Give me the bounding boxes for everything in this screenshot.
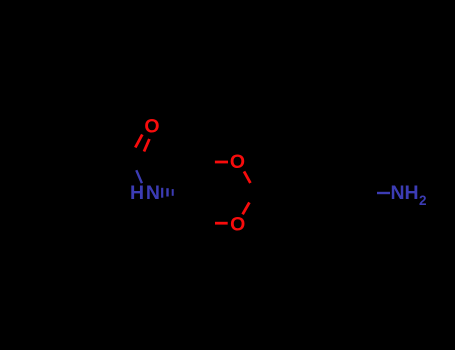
- svg-text:O: O: [144, 116, 159, 138]
- svg-text:N: N: [146, 182, 160, 204]
- svg-text:N: N: [391, 182, 405, 204]
- svg-text:H: H: [405, 182, 419, 204]
- svg-text:O: O: [230, 151, 245, 173]
- svg-text:H: H: [130, 182, 144, 204]
- svg-text:O: O: [230, 214, 245, 236]
- svg-text:2: 2: [419, 193, 427, 208]
